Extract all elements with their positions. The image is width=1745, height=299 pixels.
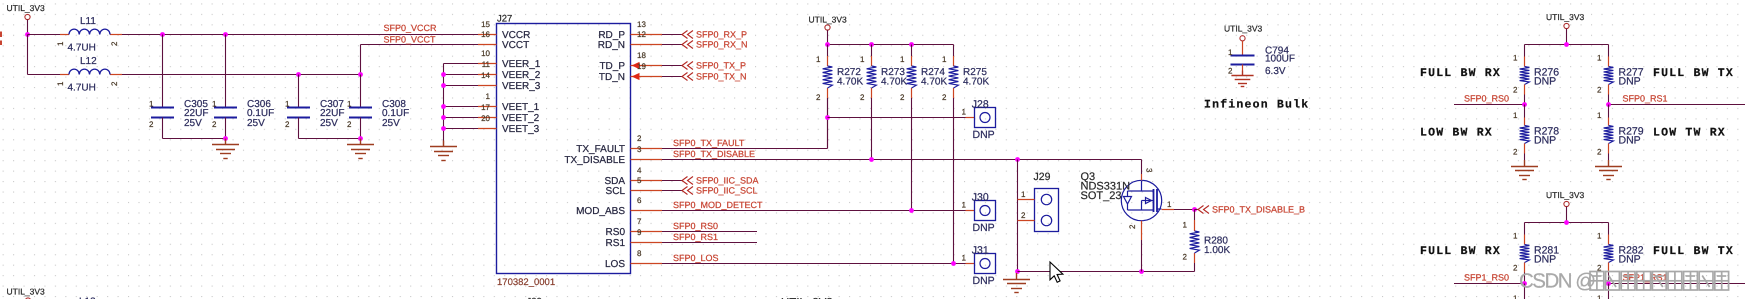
wire bottom ground rail: [1018, 271, 1195, 273]
svg-text:DNP: DNP: [1619, 76, 1641, 88]
ground G2 below C307/C308: [347, 139, 374, 159]
junction SFP0_RS0: [1522, 102, 1527, 107]
junction C308 tap at riser: [358, 72, 363, 77]
svg-text:1: 1: [1167, 200, 1172, 209]
svg-text:CSDN @: CSDN @: [1519, 270, 1595, 293]
junction at power/L11/L12 split: [25, 32, 30, 37]
svg-text:1: 1: [1183, 221, 1188, 230]
svg-text:VCCT: VCCT: [502, 40, 529, 51]
svg-text:SFP0_RS1: SFP0_RS1: [1623, 94, 1668, 104]
svg-text:1: 1: [900, 55, 905, 64]
wire col continues: [1608, 284, 1610, 299]
off-page connector SFP0_RX_P: [662, 30, 747, 40]
svg-text:1: 1: [1597, 54, 1602, 63]
svg-text:SFP0_TX_P: SFP0_TX_P: [696, 61, 746, 71]
svg-text:UTIL_3V3: UTIL_3V3: [1546, 12, 1585, 22]
svg-text:1: 1: [816, 55, 821, 64]
svg-text:2: 2: [347, 120, 352, 129]
wire vertical down to L12 row: [27, 35, 29, 75]
connector J28: [962, 98, 996, 141]
wire SFP0_LOS: [662, 263, 966, 265]
svg-text:SFP0_RS0: SFP0_RS0: [1464, 94, 1509, 104]
wire SFP0_TX_DISABLE: [662, 159, 1142, 161]
svg-text:8: 8: [637, 249, 642, 258]
svg-text:DNP: DNP: [1534, 135, 1556, 147]
wire net SFP1_RS0: [1454, 283, 1525, 285]
svg-text:1: 1: [962, 253, 967, 262]
wire net SFP0_RS0: [1454, 104, 1525, 106]
pin 6 MOD_ABS (right): [576, 196, 662, 217]
svg-text:MOD_ABS: MOD_ABS: [576, 206, 625, 217]
svg-text:2: 2: [110, 81, 119, 86]
svg-text:VEER_2: VEER_2: [502, 70, 541, 81]
svg-text:4.70K: 4.70K: [837, 76, 863, 87]
svg-text:SFP0_LOS: SFP0_LOS: [673, 253, 719, 263]
svg-text:100UF: 100UF: [1265, 54, 1295, 65]
svg-text:FULL BW RX: FULL BW RX: [1420, 67, 1501, 80]
svg-text:DNP: DNP: [1534, 254, 1556, 266]
off-page connector SFP0_IIC_SDA: [662, 176, 759, 186]
ground below R278: [1511, 160, 1538, 180]
junction at C305/C306 ground: [223, 136, 228, 141]
svg-text:16: 16: [481, 30, 490, 39]
svg-text:1: 1: [962, 107, 967, 116]
svg-text:3: 3: [1145, 168, 1154, 173]
wire J29 column: [1017, 160, 1019, 272]
svg-text:1: 1: [1513, 232, 1518, 241]
svg-text:7: 7: [637, 217, 642, 226]
svg-text:SFP1_RS0: SFP1_RS0: [1464, 273, 1509, 283]
svg-text:LOS: LOS: [605, 259, 625, 270]
wire rail corners: [1524, 223, 1526, 235]
off-page connector SFP0_TX_DISABLE_B: [1195, 205, 1306, 215]
svg-text:J27: J27: [497, 14, 512, 25]
wire 3V3 rail: [1525, 222, 1609, 224]
svg-text:FULL BW TX: FULL BW TX: [1653, 245, 1734, 258]
svg-text:1: 1: [1597, 294, 1602, 299]
resistor R277: [1597, 54, 1644, 95]
svg-text:UTIL_3V3: UTIL_3V3: [809, 15, 848, 25]
off-page connector SFP0_TX_P: [662, 61, 746, 71]
wire VEE pin link: [444, 63, 479, 65]
svg-text:RS1: RS1: [606, 238, 626, 249]
svg-text:SFP0_TX_N: SFP0_TX_N: [696, 72, 747, 82]
pin 20 VEET_3 (left): [478, 114, 540, 135]
pin 14 VEER_3 (left): [478, 71, 541, 92]
svg-text:TD_P: TD_P: [599, 61, 625, 72]
svg-text:14: 14: [481, 71, 490, 80]
svg-text:SFP0_MOD_DETECT: SFP0_MOD_DETECT: [673, 200, 763, 210]
pin 15 VCCR (left): [478, 20, 530, 41]
pin 3 TX_DISABLE (right): [564, 145, 662, 166]
junction SFP1_RS1: [1606, 281, 1611, 286]
svg-text:1: 1: [1513, 294, 1518, 299]
svg-text:1: 1: [1021, 190, 1026, 199]
svg-text:1: 1: [1513, 54, 1518, 63]
resistor R281: [1513, 232, 1559, 273]
junction VEE bus: [441, 83, 446, 88]
label Q3 refs: [1081, 171, 1131, 202]
transistor Q3: [1121, 160, 1194, 272]
svg-text:4: 4: [637, 166, 642, 175]
power symbol UTIL_3V3 (C794): [1224, 24, 1263, 41]
svg-text:FULL BW RX: FULL BW RX: [1420, 245, 1501, 258]
svg-text:4.70K: 4.70K: [963, 76, 989, 87]
wire SFP0_VCCT row: [361, 44, 479, 46]
svg-text:11: 11: [482, 60, 491, 69]
wire col continues: [1524, 284, 1526, 299]
wire C307 bottom: [298, 118, 300, 139]
junction 3V3 rail: [869, 42, 874, 47]
wire C306 bottom: [225, 118, 227, 139]
junction bottom rail left: [1015, 269, 1020, 274]
wire VEE bus vertical: [443, 64, 445, 148]
wire SFP0_TX_FAULT: [662, 148, 828, 150]
svg-text:2: 2: [1228, 67, 1233, 76]
pin 17 VEET_2 (left): [478, 103, 540, 124]
capacitor C307: [285, 75, 344, 130]
ground G5 below C794: [1231, 71, 1253, 87]
wire R282 to net row: [1608, 273, 1610, 284]
svg-text:2: 2: [1513, 86, 1518, 95]
wire SFP0_VCCR row: [122, 34, 478, 36]
capacitor C794: [1228, 41, 1295, 77]
svg-text:2: 2: [1128, 224, 1137, 229]
svg-text:25V: 25V: [247, 118, 265, 129]
junction VEE bus: [441, 115, 446, 120]
svg-text:170382_0001: 170382_0001: [497, 277, 555, 288]
pin 9 RS1 (right): [606, 228, 662, 249]
junction C307 tap on L12 row: [296, 72, 301, 77]
junction C305 tap on VCCR row: [160, 32, 165, 37]
svg-text:UTIL_3V3: UTIL_3V3: [1224, 24, 1263, 34]
pin 5 SCL (right): [606, 176, 662, 197]
svg-text:SFP0_RX_N: SFP0_RX_N: [696, 40, 748, 50]
junction SFP1_RS0: [1522, 281, 1527, 286]
svg-text:15: 15: [481, 20, 490, 29]
svg-text:12: 12: [637, 30, 646, 39]
watermark CSDN: [1519, 270, 1729, 293]
svg-text:2: 2: [637, 134, 642, 143]
wire VEE pin link: [444, 74, 479, 76]
svg-text:5: 5: [637, 176, 642, 185]
wire VEE pin link: [444, 85, 479, 87]
inductor L11: [56, 16, 122, 54]
connector J29: [1018, 171, 1059, 232]
connector J30: [962, 191, 996, 234]
svg-text:1: 1: [942, 55, 947, 64]
junction at C307/C308 ground: [358, 136, 363, 141]
wire net SFP1_RS1: [1609, 283, 1745, 285]
inductor L12: [56, 56, 122, 94]
svg-text:1: 1: [212, 100, 217, 109]
junction rail center: [1564, 42, 1569, 47]
wire J28 row: [828, 117, 966, 119]
svg-text:1: 1: [1228, 48, 1233, 57]
svg-text:25V: 25V: [320, 118, 338, 129]
capacitor C308: [347, 75, 409, 130]
svg-text:SFP0_VCCT: SFP0_VCCT: [384, 35, 437, 45]
svg-text:SCL: SCL: [606, 186, 626, 197]
wire VEE pin link: [444, 117, 479, 119]
svg-text:VEET_1: VEET_1: [502, 102, 540, 113]
svg-text:DNP: DNP: [973, 129, 995, 141]
junction C306 tap on VCCR row: [223, 32, 228, 37]
wire VEE pin link: [444, 128, 479, 130]
svg-text:1: 1: [285, 100, 290, 109]
net label fragment at left edge (cut): [0, 32, 2, 46]
resistor R276: [1513, 54, 1559, 95]
resistor R278: [1513, 105, 1559, 157]
resistor R273: [860, 45, 907, 103]
svg-text:SFP0_TX_FAULT: SFP0_TX_FAULT: [673, 138, 745, 148]
svg-text:SFP0_RS1: SFP0_RS1: [673, 232, 718, 242]
wire R279 to ground: [1608, 154, 1610, 161]
svg-text:UTIL_3V3: UTIL_3V3: [7, 287, 46, 297]
pin 18 TD_P (right): [599, 51, 662, 72]
junction VEE bus: [441, 126, 446, 131]
svg-text:SFP0_IIC_SCL: SFP0_IIC_SCL: [696, 186, 758, 196]
wire R272 col to TX_FAULT: [827, 98, 829, 149]
svg-text:2: 2: [1513, 264, 1518, 273]
svg-text:10: 10: [481, 49, 490, 58]
svg-text:J31: J31: [972, 244, 989, 256]
svg-text:2: 2: [1597, 86, 1602, 95]
junction VEE bus: [441, 104, 446, 109]
pin 16 VCCT (left): [478, 30, 529, 51]
wire C308 bottom: [360, 118, 362, 139]
svg-text:DNP: DNP: [973, 275, 995, 287]
resistor R272: [816, 45, 863, 103]
svg-text:SOT_23: SOT_23: [1081, 190, 1122, 202]
wire power stub middle: [827, 30, 829, 44]
wire riser to VCCT row: [360, 45, 362, 75]
pin 8 LOS (right): [605, 249, 662, 270]
junction 3V3 rail: [909, 42, 914, 47]
svg-text:2: 2: [1021, 211, 1026, 220]
pin 11 VEER_2 (left): [478, 60, 541, 81]
power symbol UTIL_3V3 (middle): [809, 15, 848, 31]
svg-text:TX_FAULT: TX_FAULT: [576, 144, 625, 155]
junction Q3 source on rail: [1139, 269, 1144, 274]
wire SFP0_MOD_DETECT: [662, 210, 966, 212]
svg-text:1: 1: [962, 200, 967, 209]
svg-text:DNP: DNP: [973, 222, 995, 234]
wire 3V3 rail: [1525, 44, 1609, 46]
svg-text:4.7UH: 4.7UH: [68, 83, 96, 94]
svg-text:2: 2: [1597, 148, 1602, 157]
wire R277 to net row: [1608, 95, 1610, 105]
pin 1 VEET_1 (left): [478, 92, 540, 113]
junction SFP0_RS1: [1606, 102, 1611, 107]
resistor R275: [942, 45, 989, 103]
wire power stub to L11 rail: [27, 20, 29, 35]
svg-text:LOW TW RX: LOW TW RX: [1653, 127, 1726, 140]
svg-text:2: 2: [212, 120, 217, 129]
junction TX_DISABLE/J29 col: [1015, 157, 1020, 162]
svg-text:4.70K: 4.70K: [921, 76, 947, 87]
wire L12 row left: [28, 74, 61, 76]
pin 12 RD_N (right): [598, 30, 662, 51]
IC J27 body: [497, 24, 631, 274]
wire R276 to net row: [1524, 95, 1526, 105]
ground G3 below VEE bus: [430, 141, 457, 161]
svg-text:RS0: RS0: [606, 227, 626, 238]
junction VEE bus: [441, 72, 446, 77]
svg-text:25V: 25V: [184, 118, 202, 129]
svg-text:UTIL_3V3: UTIL_3V3: [1546, 190, 1585, 200]
svg-text:2: 2: [816, 93, 821, 102]
junction R274/MOD_DETECT: [909, 208, 914, 213]
svg-text:1: 1: [1597, 111, 1602, 120]
junction R272/J28 tap: [825, 115, 830, 120]
svg-text:18: 18: [637, 51, 646, 60]
svg-text:2: 2: [285, 120, 290, 129]
svg-text:SFP0_RS0: SFP0_RS0: [673, 221, 718, 231]
svg-text:VEER_3: VEER_3: [502, 81, 541, 92]
wire C305 bottom: [162, 118, 164, 139]
svg-text:Infineon Bulk: Infineon Bulk: [1204, 99, 1309, 112]
svg-text:2: 2: [149, 120, 154, 129]
svg-text:L12: L12: [80, 56, 97, 67]
svg-text:13: 13: [637, 20, 646, 29]
wire R278 to ground: [1524, 154, 1526, 161]
svg-text:LOW BW RX: LOW BW RX: [1420, 127, 1493, 140]
wire R273 col: [871, 98, 873, 160]
svg-text:L11: L11: [80, 16, 96, 27]
junction R275/LOS: [951, 261, 956, 266]
svg-text:1: 1: [1513, 111, 1518, 120]
svg-text:VEER_1: VEER_1: [502, 59, 541, 70]
ground G4 below J29 rail: [1003, 273, 1030, 293]
svg-text:2: 2: [110, 41, 119, 46]
svg-text:1.00K: 1.00K: [1204, 245, 1230, 256]
junction rail center: [1564, 220, 1569, 225]
pin 2 TX_FAULT (right): [576, 134, 662, 155]
svg-text:TD_N: TD_N: [599, 72, 625, 83]
junction gate/R280: [1192, 207, 1197, 212]
connector J31: [962, 244, 996, 287]
svg-text:1: 1: [56, 41, 65, 46]
power symbol UTIL_3V3 (top-left): [7, 3, 46, 20]
pin 19 TD_N (right): [599, 62, 662, 83]
wire power stub: [1566, 207, 1568, 223]
wire 3V3 rail: [828, 44, 954, 46]
wire R281 to net row: [1524, 273, 1526, 284]
svg-text:17: 17: [481, 103, 490, 112]
svg-text:2: 2: [1183, 253, 1188, 262]
svg-text:SFP0_TX_DISABLE_B: SFP0_TX_DISABLE_B: [1212, 205, 1305, 215]
wire SFP0_RS0: [662, 231, 757, 233]
wire R274 col: [911, 98, 913, 211]
svg-text:DNP: DNP: [1534, 76, 1556, 88]
power symbol UTIL_3V3 (bottom-left, cut): [7, 287, 46, 299]
wire L11 row left: [28, 34, 61, 36]
svg-text:RD_N: RD_N: [598, 40, 625, 51]
junction 3V3 rail: [825, 42, 830, 47]
svg-text:20: 20: [481, 114, 490, 123]
svg-text:25V: 25V: [382, 118, 400, 129]
svg-text:1: 1: [860, 55, 865, 64]
power symbol UTIL_3V3 (right): [1546, 12, 1585, 29]
svg-text:2: 2: [900, 93, 905, 102]
ground G1 below C305/C306: [212, 139, 239, 159]
mouse cursor: [1050, 262, 1063, 282]
resistor R279: [1597, 105, 1644, 157]
svg-text:SFP0_RX_P: SFP0_RX_P: [696, 30, 747, 40]
off-page connector SFP0_RX_N: [662, 40, 748, 50]
svg-text:19: 19: [637, 62, 646, 71]
svg-text:UTIL_3V3: UTIL_3V3: [7, 3, 46, 13]
svg-text:9: 9: [637, 228, 642, 237]
svg-text:TX_DISABLE: TX_DISABLE: [564, 155, 625, 166]
wire L12 row to riser: [122, 74, 361, 76]
resistor R280: [1183, 210, 1231, 272]
svg-text:1: 1: [56, 81, 65, 86]
svg-text:1: 1: [149, 100, 154, 109]
svg-text:SFP0_TX_DISABLE: SFP0_TX_DISABLE: [673, 149, 755, 159]
off-page connector SFP0_IIC_SCL: [662, 186, 758, 196]
pin 13 RD_P (right): [598, 20, 662, 41]
pin 7 RS0 (right): [606, 217, 662, 238]
svg-text:6: 6: [637, 196, 642, 205]
svg-text:2: 2: [1513, 148, 1518, 157]
svg-text:J30: J30: [972, 191, 989, 203]
capacitor C306: [212, 35, 274, 130]
svg-text:VEET_3: VEET_3: [502, 124, 540, 135]
resistor R274: [900, 45, 947, 103]
wire R275 col: [953, 98, 955, 264]
resistor R282: [1597, 232, 1644, 273]
svg-text:DNP: DNP: [1619, 254, 1641, 266]
wire net SFP0_RS1: [1609, 104, 1745, 106]
wire power stub: [1566, 29, 1568, 45]
capacitor C305: [149, 35, 208, 130]
wire VEE pin link: [444, 106, 479, 108]
svg-text:SFP0_IIC_SDA: SFP0_IIC_SDA: [696, 176, 759, 186]
svg-text:VEET_2: VEET_2: [502, 113, 540, 124]
svg-text:1: 1: [1597, 232, 1602, 241]
ground below R279: [1595, 160, 1622, 180]
svg-text:2: 2: [860, 93, 865, 102]
svg-text:1: 1: [486, 92, 491, 101]
svg-text:SFP0_VCCR: SFP0_VCCR: [384, 23, 438, 33]
svg-text:J29: J29: [1034, 171, 1051, 183]
wire SFP0_RS1: [662, 242, 757, 244]
svg-text:3: 3: [637, 145, 642, 154]
svg-text:FULL BW TX: FULL BW TX: [1653, 67, 1734, 80]
pin 4 SDA (right): [604, 166, 662, 187]
power symbol UTIL_3V3 (right): [1546, 190, 1585, 207]
svg-text:4.70K: 4.70K: [881, 76, 907, 87]
svg-text:DNP: DNP: [1619, 135, 1641, 147]
off-page connector SFP0_TX_N: [662, 72, 747, 82]
svg-text:4.7UH: 4.7UH: [68, 43, 96, 54]
svg-text:2: 2: [942, 93, 947, 102]
wire rail corners: [1524, 45, 1526, 57]
svg-text:1: 1: [347, 100, 352, 109]
junction R273/TX_DISABLE: [869, 157, 874, 162]
pin 10 VEER_1 (left): [478, 49, 541, 70]
svg-text:J28: J28: [972, 98, 989, 110]
svg-text:6.3V: 6.3V: [1265, 66, 1286, 77]
